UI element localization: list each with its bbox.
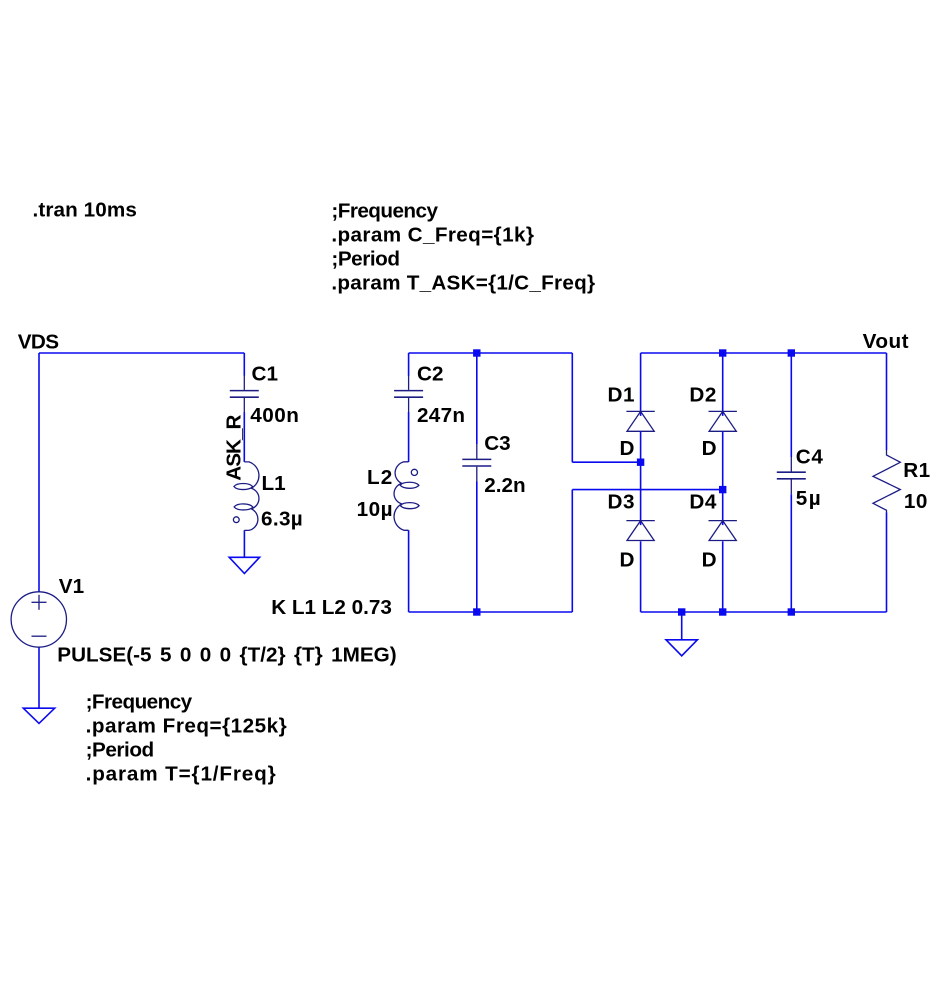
wire R1 top — [886, 353, 888, 450]
svg-text:D: D — [702, 437, 717, 460]
svg-text:.param T={1/Freq}: .param T={1/Freq} — [86, 763, 277, 786]
junction bottom rail at C4 — [788, 608, 795, 615]
wire tank to D1-D3 node horizontal — [572, 461, 640, 463]
svg-text:10: 10 — [904, 490, 928, 513]
svg-text:VDS: VDS — [18, 331, 59, 354]
svg-text:D1: D1 — [608, 383, 635, 406]
junction tank bottom at C3 — [473, 608, 480, 615]
svg-text:;Period: ;Period — [86, 739, 154, 762]
svg-text:.param C_Freq={1k}: .param C_Freq={1k} — [331, 223, 534, 246]
svg-text:D: D — [702, 549, 717, 572]
svg-text:D3: D3 — [608, 491, 635, 514]
svg-text:C2: C2 — [417, 362, 443, 385]
wire D3 anode to bottom rail — [640, 541, 642, 612]
svg-text:10µ: 10µ — [357, 498, 393, 521]
junction bottom rail at ground — [678, 608, 685, 615]
wire D2 anode to D4 — [722, 431, 724, 525]
svg-text:.param T_ASK={1/C_Freq}: .param T_ASK={1/C_Freq} — [331, 271, 595, 294]
junction top rail at C4 — [788, 349, 795, 356]
svg-text:D2: D2 — [689, 383, 716, 406]
wire C2 to L2 — [408, 412, 410, 462]
svg-text:L2: L2 — [367, 466, 394, 489]
wire C4 bottom — [790, 494, 792, 612]
svg-text:C4: C4 — [796, 446, 824, 469]
wire C2 top lead — [408, 353, 410, 376]
svg-text:ASK_R: ASK_R — [222, 415, 245, 481]
capacitor C2 — [394, 375, 423, 413]
svg-text:;Period: ;Period — [331, 247, 399, 270]
capacitor C4 — [777, 457, 806, 495]
svg-text:5µ: 5µ — [796, 487, 822, 510]
wire C3 top — [476, 353, 478, 444]
wire VDS horizontal — [39, 352, 244, 354]
svg-text:D: D — [620, 437, 635, 460]
wire VDS vertical to V1 — [38, 353, 40, 592]
wire bottom rail — [641, 611, 887, 613]
svg-text:V1: V1 — [59, 575, 84, 598]
junction top rail at D2 — [719, 349, 726, 356]
wire D1 cathode lead — [640, 353, 642, 416]
wire V1 to ground — [38, 647, 40, 708]
wire L1 to ground — [243, 530, 245, 557]
diode D1 — [626, 411, 654, 431]
wire tank top rail — [409, 352, 573, 354]
capacitor C1 — [230, 375, 259, 413]
wire ground stem — [681, 612, 683, 640]
junction bottom rail at D4 — [719, 608, 726, 615]
wire C1 top lead — [243, 353, 245, 376]
svg-text:;Frequency: ;Frequency — [331, 199, 438, 222]
svg-text:C1: C1 — [252, 362, 278, 385]
svg-text:K L1 L2 0.73: K L1 L2 0.73 — [271, 596, 392, 619]
junction tank top at C3 — [473, 349, 480, 356]
wire D4 anode to bottom rail — [722, 541, 724, 612]
capacitor C3 — [462, 444, 491, 482]
svg-text:.param Freq={125k}: .param Freq={125k} — [86, 715, 288, 738]
ground of rectifier — [666, 640, 697, 656]
svg-text:D: D — [620, 549, 635, 572]
svg-text:L1: L1 — [262, 472, 286, 495]
svg-text:.tran 10ms: .tran 10ms — [33, 199, 138, 222]
svg-text:PULSE(-5 5 0 0 0 {T/2} {T} 1ME: PULSE(-5 5 0 0 0 {T/2} {T} 1MEG) — [57, 644, 396, 667]
voltage source V1 — [11, 592, 66, 647]
svg-text:2.2n: 2.2n — [484, 474, 525, 497]
svg-text:D4: D4 — [689, 491, 716, 514]
svg-text:400n: 400n — [250, 404, 299, 427]
wire tank to D2-D4 node horizontal — [572, 489, 722, 491]
svg-text:C3: C3 — [484, 432, 510, 455]
wire C4 top — [790, 353, 792, 457]
inductor L2 (mirrored copy of L1) — [394, 462, 419, 531]
ground under V1 — [23, 708, 54, 723]
wire tank to D2-D4 node vertical — [571, 490, 573, 612]
wire D1 anode to D3 — [640, 431, 642, 525]
wire L2 to tank bottom rail — [408, 530, 410, 612]
svg-text:R1: R1 — [903, 459, 930, 482]
svg-text:;Frequency: ;Frequency — [86, 691, 193, 714]
wire R1 bottom — [886, 513, 888, 613]
wire C3 bottom — [476, 482, 478, 613]
wire C1 to L1 — [243, 412, 245, 462]
wire tank bottom rail — [409, 611, 573, 613]
inductor L1 — [233, 462, 259, 531]
svg-text:247n: 247n — [417, 404, 465, 427]
junction node D1-D3 — [637, 459, 644, 466]
diode D3 — [626, 521, 654, 541]
diode D2 — [709, 411, 737, 431]
svg-text:Vout: Vout — [863, 330, 909, 353]
wire tank to D1-D3 node vertical — [571, 353, 573, 462]
diode D4 — [709, 521, 737, 541]
wire D2 cathode lead — [722, 353, 724, 416]
resistor R1 — [873, 450, 900, 513]
junction node D2-D4 — [719, 486, 726, 493]
svg-text:6.3µ: 6.3µ — [261, 507, 303, 530]
ground under L1 — [229, 557, 259, 573]
wire top rail Vout — [641, 352, 887, 354]
